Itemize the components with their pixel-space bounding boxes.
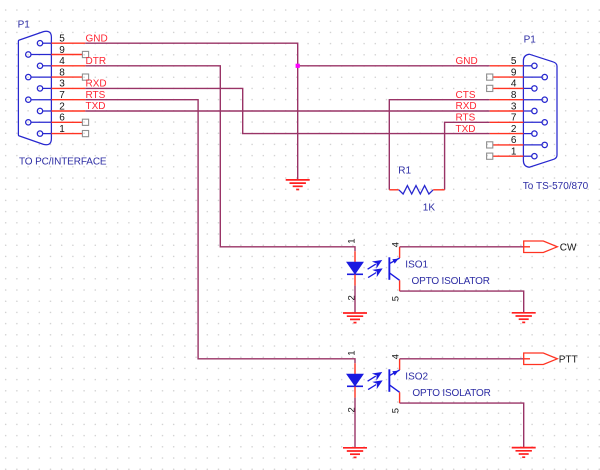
svg-text:CW: CW <box>560 242 577 253</box>
svg-text:RXD: RXD <box>456 101 477 112</box>
svg-text:To TS-570/870: To TS-570/870 <box>523 181 589 192</box>
P1 left red pin stubs <box>51 43 85 133</box>
no-connect markers P1 left pins 9 8 6 1 <box>82 51 88 136</box>
wire ISO1 collector to CW <box>400 246 524 248</box>
svg-text:1: 1 <box>346 239 357 244</box>
svg-text:6: 6 <box>511 135 517 146</box>
ground ISO1 LED <box>343 313 367 323</box>
svg-text:TO PC/INTERFACE: TO PC/INTERFACE <box>19 157 107 168</box>
opto ISO2 LED <box>347 363 363 397</box>
resistor R1 <box>389 186 444 194</box>
wire ISO2 LED cathode to ground <box>354 398 356 448</box>
wire ISO1 emitter to ground <box>400 291 524 312</box>
svg-text:4: 4 <box>511 79 517 90</box>
wire ISO2 emitter to ground <box>400 403 524 447</box>
svg-text:P1: P1 <box>18 20 31 31</box>
svg-text:9: 9 <box>511 67 517 78</box>
ground ISO2 emitter <box>512 448 536 458</box>
opto ISO2 phototransistor <box>388 359 399 403</box>
connector P1 left (DB9 to PC) body <box>18 31 51 145</box>
svg-text:4: 4 <box>59 56 65 67</box>
svg-text:2: 2 <box>346 407 357 412</box>
wire ISO2 collector to PTT <box>400 358 524 360</box>
P1 left pins and circles <box>26 41 52 137</box>
wire RXD left to TXD right <box>85 88 489 133</box>
svg-text:1K: 1K <box>423 203 436 214</box>
P1 right pin numbers <box>511 56 517 157</box>
svg-text:3: 3 <box>511 101 517 112</box>
P1 right red pin stubs <box>490 66 524 156</box>
connector PTT <box>524 353 558 365</box>
svg-text:2: 2 <box>59 101 65 112</box>
wire GND junction to P1 right <box>298 65 490 67</box>
svg-text:5: 5 <box>391 296 402 301</box>
svg-text:R1: R1 <box>398 165 411 176</box>
svg-text:OPTO ISOLATOR: OPTO ISOLATOR <box>412 276 490 287</box>
P1 right pins and circles <box>523 63 547 159</box>
wire CTS right to R1 <box>389 100 489 190</box>
svg-text:P1: P1 <box>524 34 537 45</box>
junction node GND <box>296 64 300 68</box>
svg-text:2: 2 <box>511 124 517 135</box>
svg-text:RTS: RTS <box>456 113 476 124</box>
svg-text:7: 7 <box>511 113 517 124</box>
wire RTS right to R1 <box>445 122 490 190</box>
wire TXD left to RXD right <box>85 110 489 112</box>
svg-text:GND: GND <box>456 56 478 67</box>
svg-text:6: 6 <box>59 113 65 124</box>
svg-text:2: 2 <box>346 295 357 300</box>
svg-text:7: 7 <box>59 90 65 101</box>
svg-text:5: 5 <box>511 56 517 67</box>
opto ISO1 phototransistor <box>388 247 399 291</box>
svg-text:CTS: CTS <box>456 90 476 101</box>
connector CW <box>524 241 558 253</box>
opto ISO1 LED <box>347 251 363 285</box>
svg-text:8: 8 <box>511 90 517 101</box>
ISO2 light arrows <box>368 373 382 390</box>
svg-text:9: 9 <box>59 45 65 56</box>
svg-text:1: 1 <box>511 147 517 158</box>
svg-text:TXD: TXD <box>456 124 476 135</box>
svg-text:5: 5 <box>59 34 65 45</box>
P1 left pin numbers <box>59 34 65 135</box>
wire RTS left to ISO2 LED <box>85 100 355 364</box>
svg-text:OPTO ISOLATOR: OPTO ISOLATOR <box>412 388 490 399</box>
svg-text:5: 5 <box>391 408 402 413</box>
wire GND from P1 left to ground <box>85 43 297 179</box>
svg-text:ISO2: ISO2 <box>405 371 428 382</box>
svg-text:ISO1: ISO1 <box>405 259 428 270</box>
ISO1 light arrows <box>368 261 382 278</box>
svg-text:8: 8 <box>59 67 65 78</box>
ground ISO1 emitter <box>512 313 536 323</box>
svg-text:1: 1 <box>346 351 357 356</box>
wire ISO1 LED cathode to ground <box>354 286 356 313</box>
ground symbol GND net <box>286 180 310 190</box>
svg-text:1: 1 <box>59 124 65 135</box>
wire DTR to ISO1 LED <box>85 66 355 252</box>
svg-text:PTT: PTT <box>559 354 578 365</box>
connector P1 right (DB9 to TS-570/870) body <box>523 54 557 167</box>
svg-text:3: 3 <box>59 79 65 90</box>
no-connect markers P1 right pins 9 4 6 1 <box>487 74 493 159</box>
ground ISO2 LED <box>343 448 367 458</box>
